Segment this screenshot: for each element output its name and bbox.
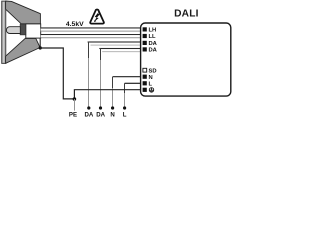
junction dot at lamp PE takeoff [39, 46, 42, 49]
wire earth from box to PE drop [74, 90, 140, 99]
svg-text:N: N [149, 75, 153, 81]
svg-text:L: L [149, 82, 153, 88]
wire stub from lamp base to PE junction [39, 38, 41, 48]
wire DA1 control line horizontal (white channel) [88, 41, 141, 45]
warning triangle high voltage [90, 9, 104, 23]
wire L vertical drop [124, 83, 126, 93]
svg-text:DA: DA [96, 111, 105, 118]
wire N vertical drop [112, 77, 114, 88]
control gear U1 DALI box outline [141, 23, 231, 96]
lamp LA1 bottom reflector wall [6, 38, 41, 63]
lightning bolt [94, 12, 100, 22]
wire DA2 control line horizontal (white channel) [99, 48, 140, 52]
terminal SD open square [143, 68, 147, 72]
svg-text:DA: DA [149, 41, 158, 47]
wire DA1 vertical drop [88, 42, 90, 58]
svg-text:LH: LH [149, 28, 157, 34]
wire lamp PE run: dot right, down, right to junction [40, 48, 74, 99]
terminal earth square [143, 88, 147, 92]
wire N horizontal from box [113, 76, 141, 78]
wire LH lamp lead (white channel) [41, 27, 141, 31]
lamp LA1 capsule holder [20, 24, 26, 35]
terminal DA lower square [143, 47, 147, 51]
wire LL lamp lead (white channel) [41, 34, 141, 38]
terminal LL square [143, 34, 147, 38]
svg-text:LL: LL [149, 34, 157, 40]
junction dot PE node [73, 97, 77, 101]
svg-text:DALI: DALI [174, 9, 199, 20]
terminal N square [143, 75, 147, 79]
junction dot L terminal [123, 106, 126, 109]
svg-text:DA: DA [85, 111, 94, 118]
svg-text:L: L [123, 111, 127, 118]
terminal LH square [143, 27, 147, 31]
junction dot N terminal [111, 106, 114, 109]
lamp LA1 reflector front rim bar [2, 1, 6, 63]
junction dot DA2 terminal [99, 106, 102, 109]
svg-text:PE: PE [69, 111, 77, 118]
svg-text:SD: SD [149, 68, 157, 74]
lamp LA1 top reflector wall [6, 1, 41, 24]
svg-text:N: N [110, 111, 114, 118]
junction dot DA1 terminal [87, 106, 90, 109]
wire PE stub below junction [74, 99, 76, 111]
terminal L square [143, 81, 147, 85]
terminal DA upper square [143, 41, 147, 45]
svg-text:4.5kV: 4.5kV [66, 21, 84, 28]
svg-text:DA: DA [149, 48, 158, 54]
wire DA2 vertical drop [100, 48, 102, 60]
wire L horizontal from box [125, 82, 141, 84]
lamp LA1 burner capsule [6, 27, 20, 34]
lamp LA1 base/socket [26, 24, 41, 38]
earth symbol (protective earth in circle) [149, 88, 154, 93]
